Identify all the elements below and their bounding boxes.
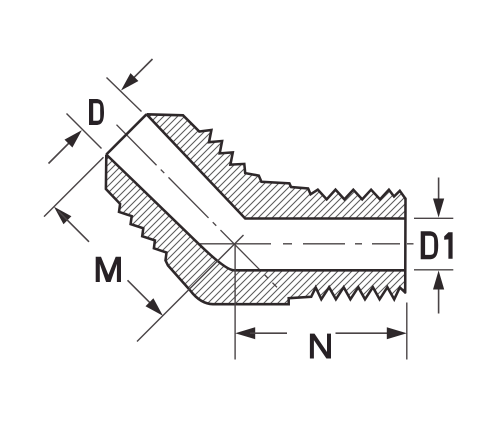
dimension M extension line upper (from tip face) [44,157,104,216]
label N [310,334,331,359]
dimension M upper arrow [54,207,71,224]
inner bore line, lower [106,155,405,271]
hatched thread band, top of fitting [147,114,406,218]
dimension D1 extension line lower [414,269,453,271]
label D1 [421,231,439,259]
top outer profile with threads [147,114,406,199]
right end face [404,199,407,293]
dimension D lower arrow [49,135,78,164]
dimension N left arrow [235,327,255,339]
hatched thread band, bottom of fitting [106,155,405,305]
bottom outer profile with threads [106,155,405,305]
dimension M lower arrow [128,280,159,311]
label M [96,257,121,282]
dimension D1 extension line upper [414,217,453,219]
inner bore line, upper [147,114,406,218]
dimension D extension line upper [107,78,142,112]
dimension N left extension line (from elbow center, vertical) [234,244,236,360]
dimension D1 lower arrow [438,286,440,314]
dimension D1 upper arrow [438,178,440,203]
dimension D extension line lower [67,114,102,149]
dimension D upper arrow [126,59,153,86]
dimension N right arrow [336,332,393,334]
fitting end face (upper-left tip) [106,114,146,154]
label D [89,99,104,125]
dimension M extension line lower (through elbow center) [137,235,244,342]
horizontal centerline of right arm [200,243,414,245]
dimension N right extension line [406,303,408,360]
45-degree centerline of upper arm [117,125,278,288]
